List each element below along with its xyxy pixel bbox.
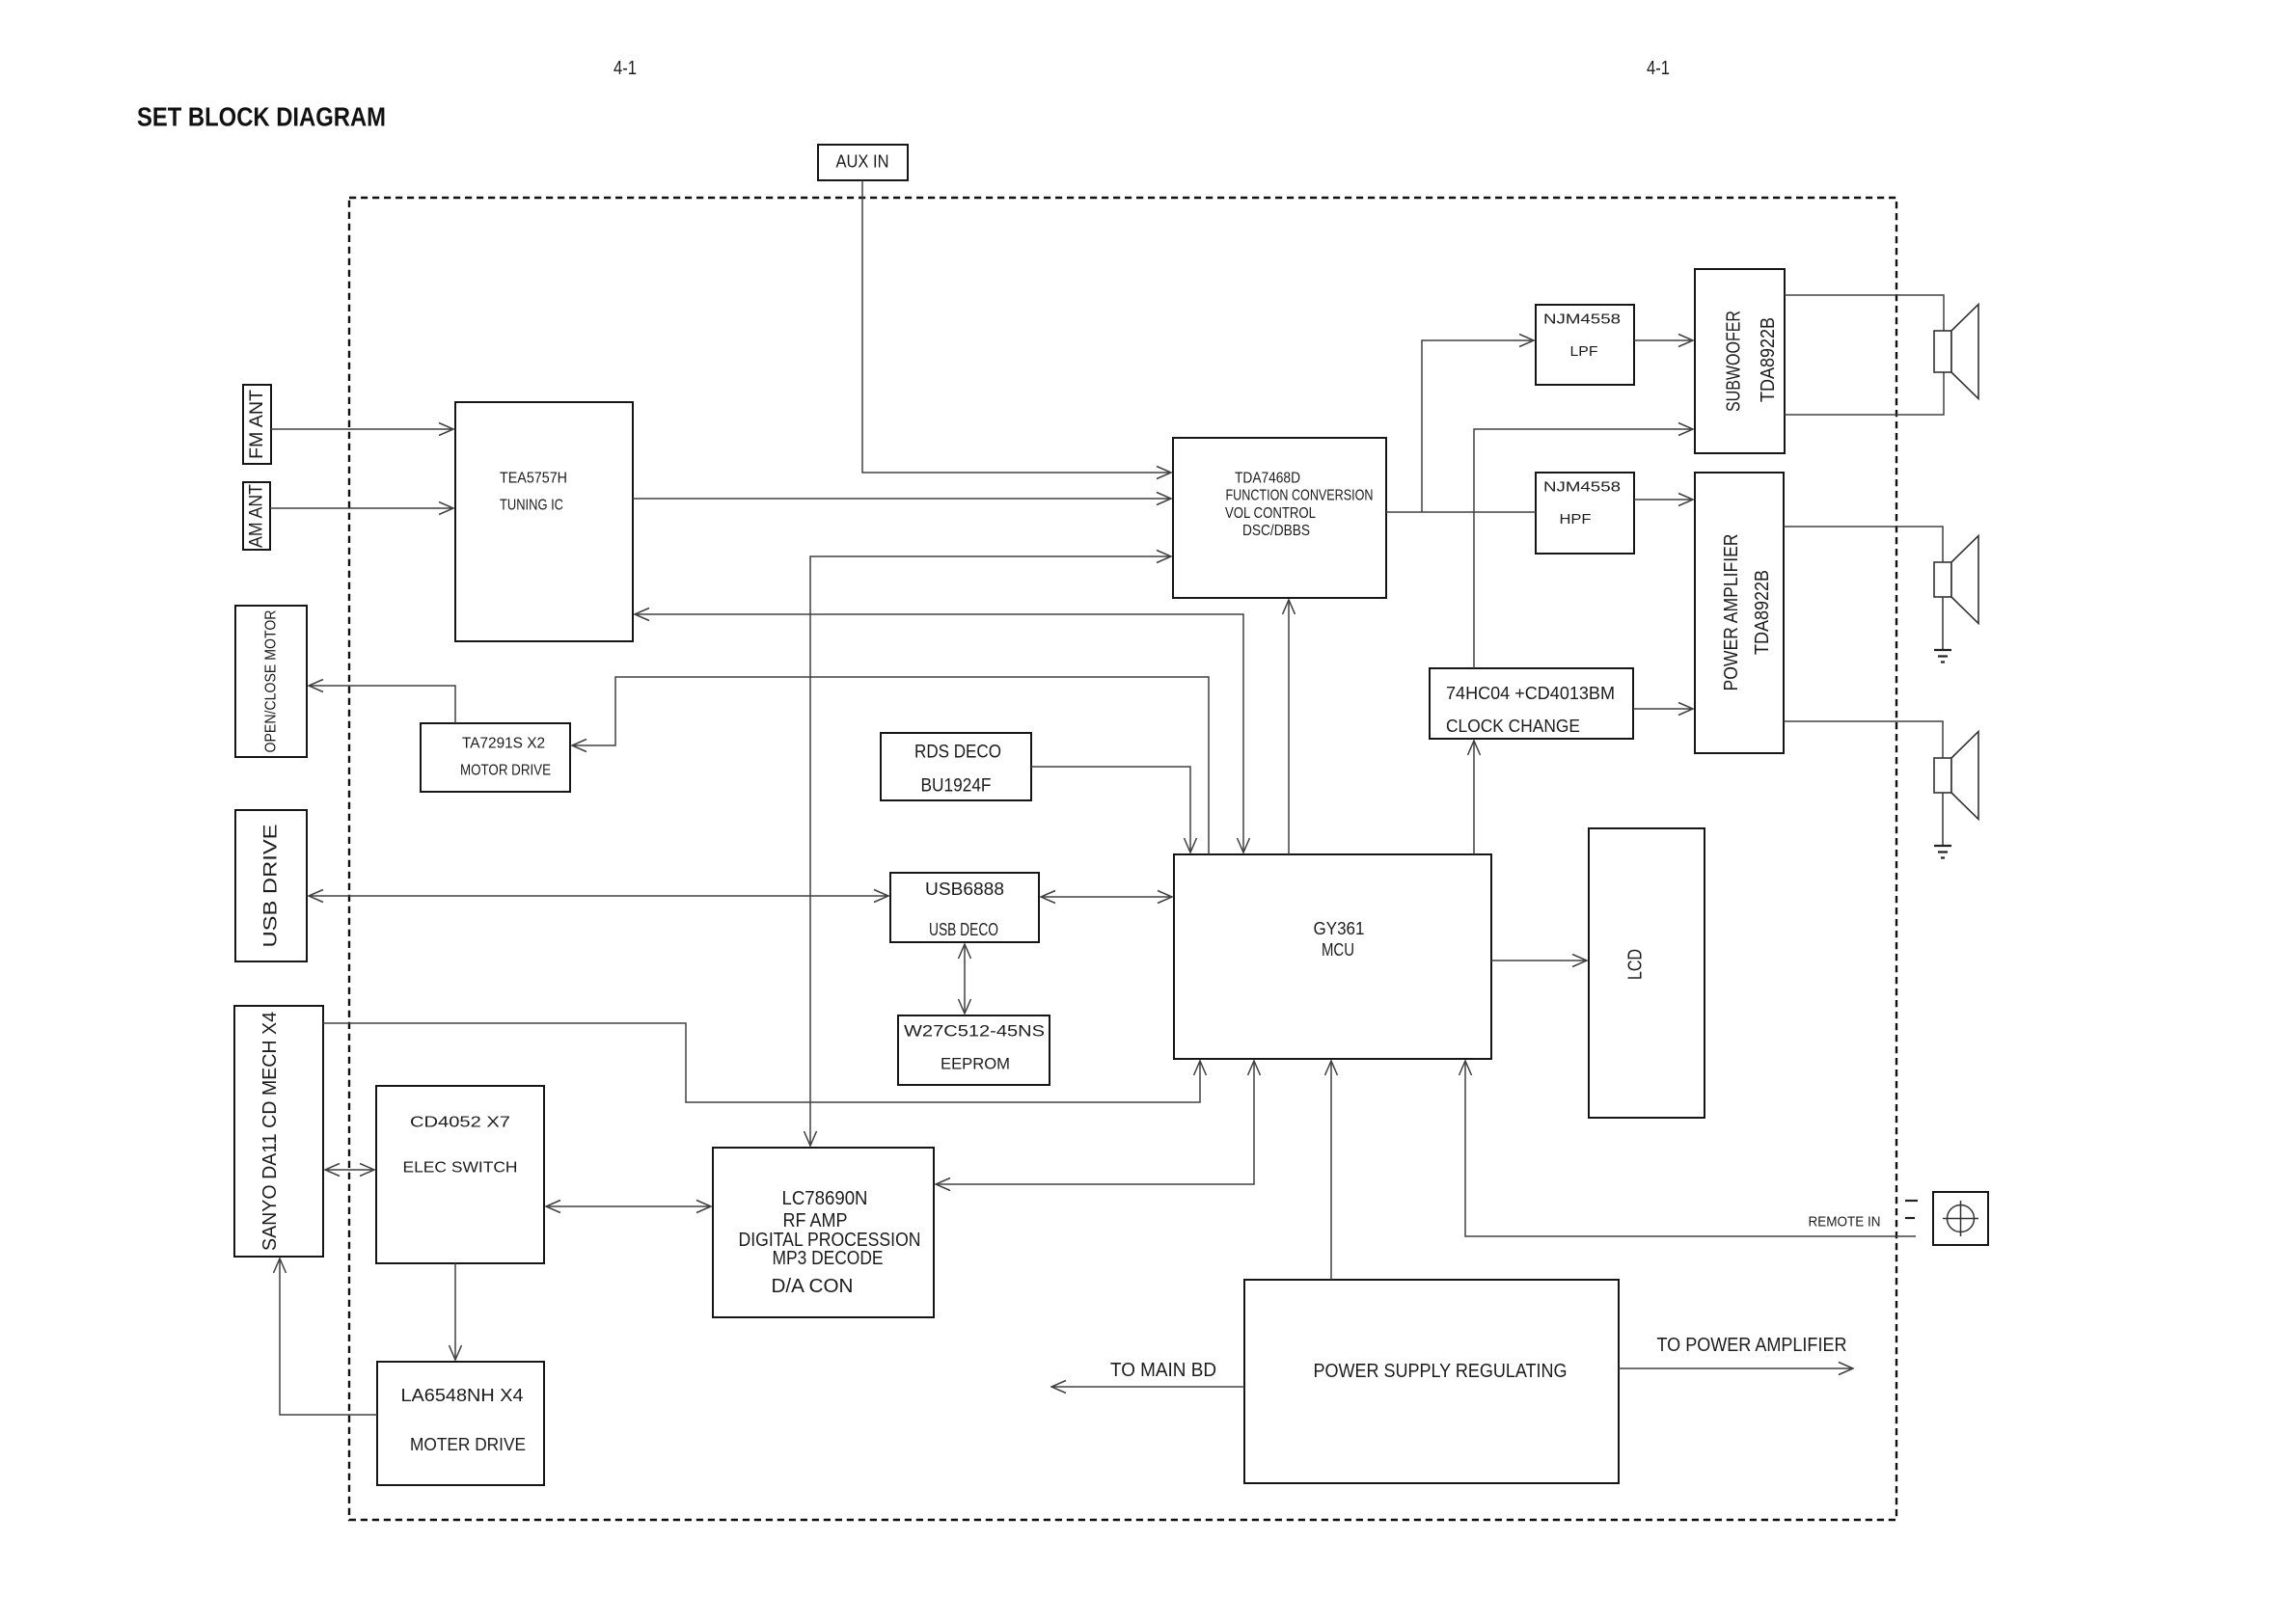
svg-text:USB DRIVE: USB DRIVE xyxy=(261,825,282,948)
speaker 1 subwoofer xyxy=(1934,305,1978,399)
svg-text:REMOTE IN: REMOTE IN xyxy=(1809,1214,1881,1231)
svg-text:AM ANT: AM ANT xyxy=(247,484,267,548)
svg-text:D/A CON: D/A CON xyxy=(772,1276,854,1297)
ground under speaker 3 xyxy=(1934,793,1951,858)
page number 4-1 left xyxy=(614,58,637,79)
svg-text:POWER SUPPLY REGULATING: POWER SUPPLY REGULATING xyxy=(1314,1361,1568,1382)
wire AUX IN to TDA7468D xyxy=(862,180,1171,473)
wire MCU to TA7291S xyxy=(572,677,1209,854)
wire MCU to TDA7468D xyxy=(1288,600,1290,854)
svg-text:MOTER DRIVE: MOTER DRIVE xyxy=(410,1435,526,1454)
block GY361 MCU xyxy=(1174,854,1491,1059)
wire SUBWOOFER to speaker 1 plus xyxy=(1785,295,1944,331)
svg-text:TUNING IC: TUNING IC xyxy=(500,498,563,514)
speaker 2 xyxy=(1934,536,1978,624)
block NJM4558 HPF xyxy=(1536,473,1634,554)
block 74HC04 +CD4013BM CLOCK CHANGE xyxy=(1430,668,1633,739)
wire USB DRIVE to USB6888 xyxy=(309,895,888,897)
block TEA5757H TUNING IC xyxy=(455,402,633,641)
svg-text:TEA5757H: TEA5757H xyxy=(500,471,567,487)
svg-text:FM ANT: FM ANT xyxy=(247,390,267,459)
svg-text:MCU: MCU xyxy=(1322,940,1354,960)
wire SANYO CD MECH to CD4052 xyxy=(325,1169,374,1171)
svg-text:FUNCTION CONVERSION: FUNCTION CONVERSION xyxy=(1226,488,1374,504)
connector AM ANT xyxy=(243,482,270,550)
wire MCU to TEA5757H xyxy=(635,614,1243,853)
wire POWER SUPPLY to MAIN BD xyxy=(1051,1386,1244,1388)
wire SANYO CD MECH to MCU xyxy=(323,1023,1200,1102)
svg-text:USB DECO: USB DECO xyxy=(929,920,998,939)
connector FM ANT xyxy=(243,385,271,464)
wire LC78690N to TDA7468D xyxy=(810,556,1171,1146)
svg-text:SET BLOCK DIAGRAM: SET BLOCK DIAGRAM xyxy=(137,102,386,132)
wire SUBWOOFER to speaker 1 minus xyxy=(1785,372,1944,415)
wire to SUBWOOFER input 2 xyxy=(1474,429,1693,512)
wire POWER AMPLIFIER to speaker 2 xyxy=(1784,527,1943,562)
wire POWER AMPLIFIER to speaker 3 xyxy=(1784,721,1943,758)
wire USB6888 to MCU xyxy=(1041,896,1172,898)
svg-text:NJM4558: NJM4558 xyxy=(1543,479,1621,496)
block RDS DECO BU1924F xyxy=(881,733,1031,800)
wire TA7291S to OPEN/CLOSE MOTOR xyxy=(309,686,455,723)
svg-text:LA6548NH X4: LA6548NH X4 xyxy=(401,1386,524,1405)
svg-text:LC78690N: LC78690N xyxy=(782,1188,868,1209)
svg-text:SANYO DA11 CD MECH X4: SANYO DA11 CD MECH X4 xyxy=(259,1012,281,1251)
wire CD4052 to LC78690N xyxy=(546,1205,711,1207)
connector AUX IN xyxy=(818,145,908,180)
wire POWER SUPPLY to POWER AMPLIFIER xyxy=(1619,1367,1853,1369)
wire USB6888 to EEPROM xyxy=(964,944,966,1014)
tick marks at dashed border near REMOTE IN xyxy=(1905,1201,1918,1218)
svg-text:SUBWOOFER: SUBWOOFER xyxy=(1724,311,1745,412)
svg-text:OPEN/CLOSE MOTOR: OPEN/CLOSE MOTOR xyxy=(263,610,280,753)
speaker 3 xyxy=(1934,732,1978,820)
block TDA7468D FUNCTION CONVERSION VOL CONTROL DSC/DBBS xyxy=(1173,438,1386,598)
svg-text:RDS DECO: RDS DECO xyxy=(914,743,1001,763)
svg-text:TO MAIN BD: TO MAIN BD xyxy=(1110,1360,1216,1381)
wire LA6548NH to SANYO CD MECH xyxy=(280,1259,377,1415)
svg-text:DSC/DBBS: DSC/DBBS xyxy=(1242,523,1310,539)
label REMOTE IN xyxy=(1809,1214,1881,1231)
wire MCU to LCD xyxy=(1491,960,1587,961)
wire TDA7468D output bus to NJM4558 HPF xyxy=(1386,511,1536,513)
wire TEA5757H to TDA7468D xyxy=(633,498,1171,500)
svg-text:ELEC SWITCH: ELEC SWITCH xyxy=(403,1160,518,1177)
wire CD4052 to LA6548NH xyxy=(454,1263,456,1360)
svg-text:LPF: LPF xyxy=(1570,343,1598,360)
svg-text:NJM4558: NJM4558 xyxy=(1543,311,1621,328)
svg-text:4-1: 4-1 xyxy=(614,58,637,79)
wire NJM4558 LPF to SUBWOOFER xyxy=(1634,339,1693,341)
block TA7291S X2 MOTOR DRIVE xyxy=(421,723,570,792)
svg-text:RF AMP: RF AMP xyxy=(783,1210,848,1232)
svg-text:TO POWER AMPLIFIER: TO POWER AMPLIFIER xyxy=(1657,1335,1847,1356)
svg-text:W27C512-45NS: W27C512-45NS xyxy=(904,1022,1045,1041)
block POWER AMPLIFIER TDA8922B xyxy=(1695,473,1784,753)
svg-text:TDA8922B: TDA8922B xyxy=(1758,317,1779,402)
svg-text:4-1: 4-1 xyxy=(1647,58,1670,79)
page number 4-1 right xyxy=(1647,58,1670,79)
wire NJM4558 HPF to POWER AMPLIFIER xyxy=(1634,499,1693,501)
wire MCU to REMOTE IN xyxy=(1465,1061,1916,1236)
svg-text:CLOCK CHANGE: CLOCK CHANGE xyxy=(1446,717,1580,736)
svg-text:BU1924F: BU1924F xyxy=(921,776,992,797)
svg-text:TDA7468D: TDA7468D xyxy=(1235,471,1300,487)
wire CLOCK CHANGE to POWER AMPLIFIER xyxy=(1633,708,1693,710)
ground under speaker 2 xyxy=(1934,597,1951,663)
dashed main board outline xyxy=(349,198,1896,1520)
block USB DRIVE xyxy=(235,810,307,961)
wire RDS DECO to MCU xyxy=(1031,767,1190,853)
wire to CLOCK CHANGE top xyxy=(1473,512,1475,668)
svg-text:MOTOR DRIVE: MOTOR DRIVE xyxy=(460,763,551,779)
block LCD xyxy=(1589,828,1705,1118)
block CD4052 X7 ELEC SWITCH xyxy=(376,1086,544,1263)
wire to NJM4558 LPF xyxy=(1422,340,1534,512)
wire FM ANT to TEA5757H xyxy=(271,428,453,430)
block POWER SUPPLY REGULATING xyxy=(1244,1280,1619,1483)
wire POWER SUPPLY to MCU xyxy=(1330,1061,1332,1280)
connector REMOTE IN jack xyxy=(1933,1192,1988,1245)
svg-text:MP3 DECODE: MP3 DECODE xyxy=(773,1248,884,1269)
block LC78690N RF AMP DIGITAL PROCESSION MP3 DECODE D/A CON xyxy=(713,1148,934,1317)
block OPEN/CLOSE MOTOR xyxy=(235,606,307,757)
svg-text:AUX IN: AUX IN xyxy=(836,152,889,172)
svg-text:EEPROM: EEPROM xyxy=(941,1055,1010,1073)
block NJM4558 LPF xyxy=(1536,305,1634,385)
block LA6548NH X4 MOTER DRIVE xyxy=(377,1362,544,1485)
svg-text:CD4052 X7: CD4052 X7 xyxy=(410,1115,510,1131)
svg-text:USB6888: USB6888 xyxy=(925,880,1004,899)
svg-text:LCD: LCD xyxy=(1625,949,1647,980)
wire AM ANT to TEA5757H xyxy=(270,507,453,509)
block W27C512-45NS EEPROM xyxy=(898,1015,1050,1085)
block SUBWOOFER TDA8922B xyxy=(1695,269,1785,453)
label TO POWER AMPLIFIER xyxy=(1657,1335,1847,1356)
svg-text:HPF: HPF xyxy=(1560,511,1592,528)
block SANYO DA11 CD MECH X4 xyxy=(234,1006,323,1257)
svg-text:TDA8922B: TDA8922B xyxy=(1752,570,1773,655)
svg-text:74HC04 +CD4013BM: 74HC04 +CD4013BM xyxy=(1446,684,1615,703)
svg-text:POWER AMPLIFIER: POWER AMPLIFIER xyxy=(1721,534,1742,691)
wire MCU to CLOCK CHANGE xyxy=(1473,741,1475,854)
svg-text:GY361: GY361 xyxy=(1314,919,1365,938)
wire LC78690N to MCU xyxy=(936,1061,1254,1184)
block USB6888 USB DECO xyxy=(890,873,1039,942)
label TO MAIN BD xyxy=(1110,1360,1216,1381)
title SET BLOCK DIAGRAM xyxy=(137,102,386,132)
svg-text:TA7291S X2: TA7291S X2 xyxy=(462,736,545,752)
svg-text:VOL CONTROL: VOL CONTROL xyxy=(1225,505,1316,522)
